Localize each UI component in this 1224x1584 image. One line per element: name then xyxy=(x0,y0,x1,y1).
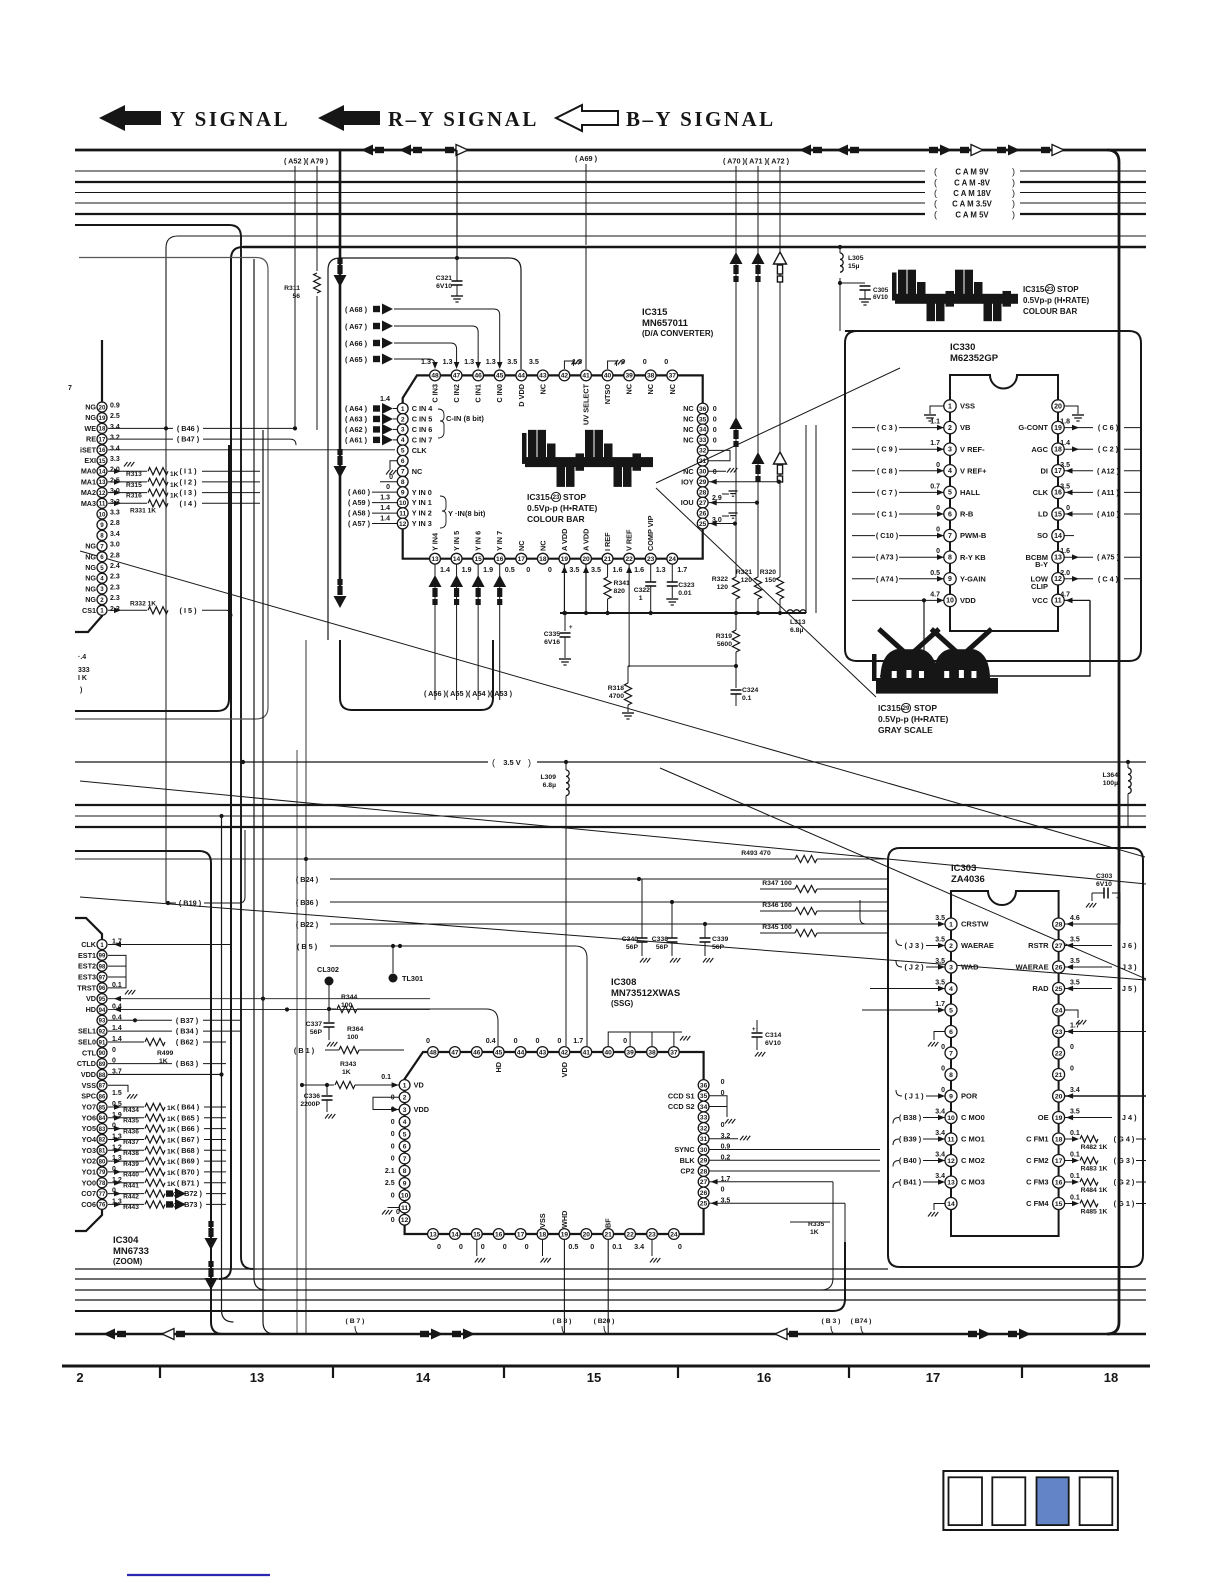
svg-text:6: 6 xyxy=(948,511,952,518)
svg-text:0: 0 xyxy=(391,1143,395,1150)
wire IC303 pin4 feed xyxy=(870,988,945,990)
IC330 left tags and wires xyxy=(852,419,944,584)
legend Y SIGNAL arrow xyxy=(99,105,161,131)
svg-text:( I 4 ): ( I 4 ) xyxy=(179,499,197,508)
svg-text:IC315: IC315 xyxy=(642,307,668,318)
IC315 right pin values xyxy=(713,404,717,476)
svg-text:(: ( xyxy=(934,167,937,177)
svg-text:( B 8 ): ( B 8 ) xyxy=(553,1318,572,1325)
svg-text:8: 8 xyxy=(948,555,952,562)
signal marker left on top bus xyxy=(813,147,822,153)
IC315 pins 1-12 (left column) xyxy=(397,403,408,529)
wire A66 to pin47 xyxy=(394,343,457,365)
wire bottom bus line 1 xyxy=(75,1268,888,1270)
signal marker left on top bus xyxy=(413,147,422,153)
svg-text:NC: NC xyxy=(625,383,634,394)
svg-text:4: 4 xyxy=(949,986,953,993)
svg-text:42: 42 xyxy=(561,373,569,380)
svg-text:R485 1K: R485 1K xyxy=(1081,1209,1108,1216)
svg-text:1.3: 1.3 xyxy=(443,357,453,366)
wire IC303 pin20 feed xyxy=(1065,1095,1146,1097)
svg-text:COMP VIP: COMP VIP xyxy=(646,515,655,551)
svg-text:( B41 ): ( B41 ) xyxy=(899,1178,922,1187)
svg-text:2.3: 2.3 xyxy=(110,584,120,591)
svg-text:11: 11 xyxy=(99,501,106,508)
svg-text:13: 13 xyxy=(431,556,439,563)
svg-text:CTLD: CTLD xyxy=(77,1059,96,1068)
op-amp IC330 body outline with notch xyxy=(950,375,1058,631)
svg-text:10: 10 xyxy=(401,1193,409,1200)
svg-text:( J 5 ): ( J 5 ) xyxy=(1117,984,1137,993)
svg-text:WHD: WHD xyxy=(560,1211,569,1228)
svg-text:IC304: IC304 xyxy=(113,1235,139,1246)
svg-text:( B39 ): ( B39 ) xyxy=(899,1135,922,1144)
wire SET row long xyxy=(108,449,395,451)
signal marker right outline on top bus xyxy=(445,147,454,153)
wire vertical x=806 xyxy=(805,425,807,613)
svg-text:2.8: 2.8 xyxy=(110,520,120,527)
svg-text:R437: R437 xyxy=(123,1139,139,1146)
wire junction y=666 xyxy=(628,665,736,667)
wire WE row to (B46) xyxy=(108,427,173,429)
legend R-Y SIGNAL arrow xyxy=(318,105,380,131)
svg-text:Y IN 3: Y IN 3 xyxy=(412,519,432,528)
svg-text:R311: R311 xyxy=(284,285,300,292)
svg-text:+: + xyxy=(569,625,573,631)
svg-text:COLOUR BAR: COLOUR BAR xyxy=(527,514,585,524)
resistor R315 1K to (I 2) xyxy=(108,481,147,483)
svg-text:3.5: 3.5 xyxy=(935,958,945,965)
op-amp IC303 body outline with notch xyxy=(951,891,1059,1236)
IC330 left pin names xyxy=(960,402,987,605)
svg-text:9: 9 xyxy=(401,489,405,496)
wire D-VDD horizontal y=258 xyxy=(328,258,521,640)
wire IOU pin27 to R321 column xyxy=(708,502,757,504)
svg-text:19: 19 xyxy=(1055,1115,1063,1122)
svg-text:820: 820 xyxy=(614,588,626,595)
svg-text:24: 24 xyxy=(1055,1007,1063,1014)
svg-text:): ) xyxy=(80,687,82,694)
svg-text:( B74 ): ( B74 ) xyxy=(851,1318,872,1325)
svg-text:( I 5 ): ( I 5 ) xyxy=(179,606,197,615)
wire under pin19 down xyxy=(563,1240,565,1335)
svg-text:1K: 1K xyxy=(167,1116,176,1123)
wire mid rail 3 (thick) xyxy=(75,826,1146,828)
svg-text:C303: C303 xyxy=(1096,873,1112,880)
svg-text:2.3: 2.3 xyxy=(110,595,120,602)
wire bottom bus line 5 (thick, corner up) xyxy=(75,1242,845,1311)
svg-text:OE: OE xyxy=(1038,1113,1049,1122)
svg-text:2.3: 2.3 xyxy=(110,574,120,581)
IC304 values xyxy=(112,939,122,1206)
svg-text:9: 9 xyxy=(100,522,104,529)
svg-text:0: 0 xyxy=(1066,505,1070,512)
svg-text:15: 15 xyxy=(1054,511,1062,518)
wire VDD row to trunk xyxy=(108,1073,222,1075)
svg-text:0: 0 xyxy=(1070,1066,1074,1073)
node TL301 xyxy=(389,974,398,983)
svg-text:WAD: WAD xyxy=(961,963,979,972)
svg-text:11: 11 xyxy=(399,510,406,517)
wire top bus line 2 CAM 9V xyxy=(75,170,925,172)
signal arrow down below IC304 (lower) xyxy=(205,1278,218,1290)
svg-text:38: 38 xyxy=(648,1049,656,1056)
svg-text:10: 10 xyxy=(946,598,954,605)
svg-text:0: 0 xyxy=(525,1242,529,1251)
svg-text:R347 100: R347 100 xyxy=(762,880,792,887)
svg-text:18: 18 xyxy=(1055,1136,1063,1143)
waveform colour bar inside IC315 xyxy=(525,457,653,467)
page indicator box 3 (selected, blue) xyxy=(1037,1477,1069,1525)
svg-text:LD: LD xyxy=(1038,510,1049,519)
svg-text:8: 8 xyxy=(949,1072,953,1079)
svg-text:Y IN 7: Y IN 7 xyxy=(495,531,504,551)
svg-text:( B71 ): ( B71 ) xyxy=(177,1178,200,1187)
signal marker right on bottom bus xyxy=(1008,1331,1017,1337)
svg-text:23: 23 xyxy=(1055,1029,1063,1036)
svg-text:( B65 ): ( B65 ) xyxy=(177,1113,200,1122)
svg-text:3.2: 3.2 xyxy=(110,435,120,442)
wire CP2 out xyxy=(709,1170,880,1172)
svg-text:iSET: iSET xyxy=(80,445,97,454)
page indicator box 4 xyxy=(1080,1477,1113,1525)
svg-text:VDD: VDD xyxy=(960,596,976,605)
svg-text:( J 3 ): ( J 3 ) xyxy=(904,941,924,950)
svg-text:3.5: 3.5 xyxy=(1060,462,1070,469)
wire riser x=833 xyxy=(821,1242,833,1290)
svg-text:29: 29 xyxy=(699,479,707,486)
svg-text:C IN2: C IN2 xyxy=(452,384,461,403)
svg-text:I K: I K xyxy=(78,675,87,682)
svg-text:( B24 ): ( B24 ) xyxy=(296,875,319,884)
wire CLK row xyxy=(108,944,230,946)
svg-text:SO: SO xyxy=(1037,531,1048,540)
svg-text:3.5: 3.5 xyxy=(935,937,945,944)
svg-text:CLK: CLK xyxy=(81,940,97,949)
svg-text:C A M 5V: C A M 5V xyxy=(955,211,989,220)
wire pin20 down xyxy=(585,564,587,613)
svg-text:3.5: 3.5 xyxy=(935,980,945,987)
wire pin25 to R322 column xyxy=(708,523,735,525)
svg-text:1.4: 1.4 xyxy=(380,516,390,523)
wire bottom bus line 4 xyxy=(75,1299,1146,1301)
resistor R311 56 xyxy=(314,273,321,293)
svg-text:17: 17 xyxy=(518,556,526,563)
svg-text:C321: C321 xyxy=(436,275,452,282)
svg-text:88: 88 xyxy=(99,1073,106,1079)
svg-text:28: 28 xyxy=(699,489,707,496)
wire IC315 enclosure bottom (left part) xyxy=(340,640,493,710)
svg-text:25: 25 xyxy=(1055,986,1063,993)
svg-text:38: 38 xyxy=(647,373,655,380)
svg-text:3: 3 xyxy=(949,964,953,971)
svg-text:NC: NC xyxy=(646,383,655,394)
wire top bus line 10 (gray) xyxy=(75,258,268,720)
svg-text:): ) xyxy=(1012,199,1015,209)
svg-text:2: 2 xyxy=(948,425,952,432)
svg-text:13: 13 xyxy=(250,1370,264,1385)
svg-text:0.1: 0.1 xyxy=(1070,1173,1080,1180)
svg-text:2.5: 2.5 xyxy=(385,1180,395,1187)
svg-text:): ) xyxy=(1012,210,1015,220)
svg-text:NC: NC xyxy=(683,467,694,476)
svg-text:0.5: 0.5 xyxy=(568,1242,578,1251)
svg-text:28: 28 xyxy=(700,1168,708,1175)
svg-text:6: 6 xyxy=(949,1029,953,1036)
svg-text:0: 0 xyxy=(391,1156,395,1163)
svg-text:MA0: MA0 xyxy=(81,467,96,476)
wire under pin21 down xyxy=(607,1240,609,1335)
svg-text:NG: NG xyxy=(85,552,96,561)
svg-text:NG: NG xyxy=(85,563,96,572)
svg-text:11: 11 xyxy=(401,1205,408,1212)
svg-text:100µ: 100µ xyxy=(1103,780,1118,787)
svg-text:1.6: 1.6 xyxy=(634,565,644,574)
svg-text:0: 0 xyxy=(936,462,940,469)
svg-text:( C 9 ): ( C 9 ) xyxy=(877,445,898,454)
svg-text:3.5: 3.5 xyxy=(1070,1109,1080,1116)
signal arrow R-Y up on A71 wire (upper) xyxy=(752,252,765,264)
op-amp IC308 body outline xyxy=(405,1052,704,1234)
svg-text:0.1: 0.1 xyxy=(742,695,752,702)
svg-text:2: 2 xyxy=(100,597,104,604)
IC315 pins 48-37 (top row) xyxy=(430,370,678,381)
wire top bus line 6 CAM 5V xyxy=(75,213,925,215)
svg-text:HALL: HALL xyxy=(960,488,980,497)
svg-text:0.1: 0.1 xyxy=(1070,1195,1080,1202)
svg-text:1.9: 1.9 xyxy=(462,565,472,574)
svg-text:27: 27 xyxy=(700,1179,708,1186)
svg-text:3.5: 3.5 xyxy=(1070,980,1080,987)
svg-text:35: 35 xyxy=(699,416,707,423)
svg-text:43: 43 xyxy=(539,373,547,380)
wire VDD pin10 down xyxy=(923,600,925,687)
svg-text:35: 35 xyxy=(700,1093,708,1100)
signal marker outline left on bottom bus xyxy=(789,1331,798,1337)
svg-text:1: 1 xyxy=(948,403,952,410)
svg-text:6V10: 6V10 xyxy=(873,294,888,301)
svg-text:1K: 1K xyxy=(170,471,179,478)
svg-text:R346 100: R346 100 xyxy=(762,902,792,909)
svg-text:1.8: 1.8 xyxy=(1060,419,1070,426)
svg-text:3.3: 3.3 xyxy=(110,456,120,463)
svg-text:0.01: 0.01 xyxy=(678,590,691,597)
svg-text:98: 98 xyxy=(99,964,106,970)
svg-text:20: 20 xyxy=(582,556,590,563)
svg-text:A VDD: A VDD xyxy=(581,529,590,551)
signal marker left on bottom bus xyxy=(117,1331,126,1337)
wire trunk vertical x=297 (gray) xyxy=(296,750,298,1334)
svg-text:IC315-: IC315- xyxy=(878,703,904,713)
svg-text:13: 13 xyxy=(1054,555,1062,562)
svg-text:NG: NG xyxy=(85,574,96,583)
svg-text:IOU: IOU xyxy=(681,498,694,507)
svg-text:R331 1K: R331 1K xyxy=(130,507,156,514)
op-amp IC315 body outline xyxy=(403,375,703,558)
svg-text:( A63 ): ( A63 ) xyxy=(345,414,368,423)
svg-text:V REF-: V REF- xyxy=(960,445,985,454)
svg-text:1K: 1K xyxy=(170,493,179,500)
svg-text:YO3: YO3 xyxy=(82,1146,96,1155)
svg-text:CCD S2: CCD S2 xyxy=(668,1102,695,1111)
svg-text:1.4: 1.4 xyxy=(380,505,390,512)
svg-text:0: 0 xyxy=(713,425,717,434)
page indicator box 1 xyxy=(949,1477,983,1525)
svg-text:22: 22 xyxy=(626,1231,634,1238)
wire pin22 down (long) xyxy=(628,564,630,667)
svg-text:0: 0 xyxy=(664,357,668,366)
svg-text:( B40 ): ( B40 ) xyxy=(899,1156,922,1165)
svg-text:R499: R499 xyxy=(157,1050,173,1057)
svg-text:0.5Vp-p (H•RATE): 0.5Vp-p (H•RATE) xyxy=(527,503,598,513)
svg-text:( C10 ): ( C10 ) xyxy=(876,531,899,540)
node junction on 3.5V rail xyxy=(241,760,245,764)
svg-text:(: ( xyxy=(934,188,937,198)
svg-text:( G 2 ): ( G 2 ) xyxy=(1114,1178,1135,1187)
svg-text:28: 28 xyxy=(1055,921,1063,928)
svg-text:C MO2: C MO2 xyxy=(961,1156,985,1165)
svg-text:VDD: VDD xyxy=(560,1062,569,1077)
svg-text:G-CONT: G-CONT xyxy=(1018,423,1048,432)
svg-text:83: 83 xyxy=(99,1127,106,1133)
ground under IC308 pin18 xyxy=(542,1240,544,1257)
svg-text:IC315-: IC315- xyxy=(1023,285,1047,294)
svg-text:3.4: 3.4 xyxy=(935,1173,945,1180)
svg-text:15µ: 15µ xyxy=(848,263,860,270)
signal marker outline left on bottom bus xyxy=(176,1331,185,1337)
signal marker right outline on top bus xyxy=(1041,147,1050,153)
svg-text:37: 37 xyxy=(669,373,677,380)
svg-text:( J 3 ): ( J 3 ) xyxy=(1117,963,1137,972)
svg-text:R344: R344 xyxy=(341,994,357,1001)
svg-text:C A M 3.5V: C A M 3.5V xyxy=(952,200,993,209)
wire mid rail 1 (thick) xyxy=(75,804,1146,806)
svg-text:17: 17 xyxy=(517,1231,525,1238)
svg-text:1: 1 xyxy=(403,1082,407,1089)
svg-text:NG: NG xyxy=(85,542,96,551)
resistor R332 1K to (I 5) xyxy=(108,609,147,611)
svg-text:VSS: VSS xyxy=(82,1081,97,1090)
IC304 resistor rows R434-R443 xyxy=(108,1102,226,1211)
svg-text:0: 0 xyxy=(721,1122,725,1129)
svg-text:7: 7 xyxy=(68,385,72,392)
wire long diagonal D6 xyxy=(80,781,1146,884)
svg-text:SPC: SPC xyxy=(81,1092,96,1101)
wire long diagonal D3 xyxy=(80,897,1146,980)
svg-text:0: 0 xyxy=(391,1217,395,1224)
svg-text:( B34 ): ( B34 ) xyxy=(176,1027,199,1036)
IC301 pin values xyxy=(110,403,120,613)
svg-text:18: 18 xyxy=(539,556,547,563)
svg-text:27: 27 xyxy=(699,500,707,507)
svg-text:(SSG): (SSG) xyxy=(611,999,634,1008)
svg-text:A VDD: A VDD xyxy=(560,529,569,551)
svg-text:89: 89 xyxy=(99,1062,106,1068)
svg-text:30: 30 xyxy=(700,1147,708,1154)
svg-text:1: 1 xyxy=(639,595,643,602)
wire top bus line 1 (thick, frame top) xyxy=(75,150,1119,1334)
IC315 left pin names xyxy=(412,404,434,528)
IC330 right tags and wires xyxy=(1060,419,1141,584)
svg-text:EXI: EXI xyxy=(84,456,96,465)
svg-text:5600: 5600 xyxy=(717,641,732,648)
svg-text:10: 10 xyxy=(947,1115,955,1122)
IC315 top pin value labels xyxy=(421,357,668,366)
wire A72 vertical xyxy=(779,166,781,575)
svg-text:3.5: 3.5 xyxy=(935,915,945,922)
svg-text:BF: BF xyxy=(604,1218,613,1228)
svg-text:( B67 ): ( B67 ) xyxy=(177,1135,200,1144)
svg-text:17: 17 xyxy=(99,436,106,443)
svg-text:( A60 ): ( A60 ) xyxy=(348,488,371,497)
svg-text:( B36 ): ( B36 ) xyxy=(296,898,319,907)
wire top bus line 5 CAM 3.5V xyxy=(75,202,925,204)
svg-text:1K: 1K xyxy=(810,1229,819,1236)
svg-text:6V10: 6V10 xyxy=(436,283,452,290)
svg-text:16: 16 xyxy=(99,447,106,454)
svg-text:17: 17 xyxy=(1054,468,1062,475)
node (B19) tag xyxy=(166,901,170,905)
svg-text:MA3: MA3 xyxy=(81,499,96,508)
svg-text:R318: R318 xyxy=(608,685,624,692)
svg-text:9: 9 xyxy=(948,576,952,583)
svg-text:( G 4 ): ( G 4 ) xyxy=(1114,1135,1135,1144)
svg-text:26: 26 xyxy=(700,1190,708,1197)
svg-text:77: 77 xyxy=(99,1192,106,1198)
svg-text:YO4: YO4 xyxy=(82,1135,96,1144)
svg-text:29: 29 xyxy=(903,706,910,712)
IC330 pins 1-10 (left) xyxy=(944,400,956,607)
svg-text:78: 78 xyxy=(99,1181,106,1187)
svg-text:17: 17 xyxy=(926,1370,940,1385)
svg-text:26: 26 xyxy=(1055,964,1063,971)
svg-text:13: 13 xyxy=(947,1179,955,1186)
svg-text:AGC: AGC xyxy=(1031,445,1048,454)
svg-text:0: 0 xyxy=(396,1209,400,1216)
svg-text:( B37 ): ( B37 ) xyxy=(176,1016,199,1025)
svg-text:M62352GP: M62352GP xyxy=(950,353,999,364)
svg-text:4.6: 4.6 xyxy=(1070,915,1080,922)
wire mid rail 4 xyxy=(75,858,795,860)
svg-text:( G 1 ): ( G 1 ) xyxy=(1114,1199,1135,1208)
svg-text:( G 3 ): ( G 3 ) xyxy=(1114,1156,1135,1165)
svg-text:C IN 5: C IN 5 xyxy=(412,415,433,424)
IC330 pins 20-11 (right) xyxy=(1052,400,1064,607)
svg-text:VB: VB xyxy=(960,423,971,432)
svg-text:R-Y KB: R-Y KB xyxy=(960,553,986,562)
svg-text:7: 7 xyxy=(100,543,104,550)
svg-text:0: 0 xyxy=(643,357,647,366)
svg-text:0.4: 0.4 xyxy=(486,1036,496,1045)
svg-text:45: 45 xyxy=(495,1049,503,1056)
capacitor C340 56P xyxy=(641,879,643,938)
svg-text:( I 1 ): ( I 1 ) xyxy=(179,467,197,476)
svg-text:81: 81 xyxy=(99,1149,106,1155)
svg-text:0: 0 xyxy=(623,1036,627,1045)
svg-text:( J 1 ): ( J 1 ) xyxy=(904,1092,924,1101)
svg-text:22: 22 xyxy=(1055,1050,1063,1057)
svg-text:B–Y SIGNAL: B–Y SIGNAL xyxy=(626,107,776,131)
svg-text:44: 44 xyxy=(518,373,526,380)
svg-text:27: 27 xyxy=(1055,943,1063,950)
svg-text:STOP: STOP xyxy=(1057,285,1079,294)
svg-text:3: 3 xyxy=(100,586,104,593)
svg-text:(: ( xyxy=(934,199,937,209)
svg-text:STOP: STOP xyxy=(914,703,937,713)
svg-text:1.9: 1.9 xyxy=(483,565,493,574)
op-amp IC304 partial body xyxy=(75,918,102,1231)
svg-text:( B46 ): ( B46 ) xyxy=(177,424,200,433)
